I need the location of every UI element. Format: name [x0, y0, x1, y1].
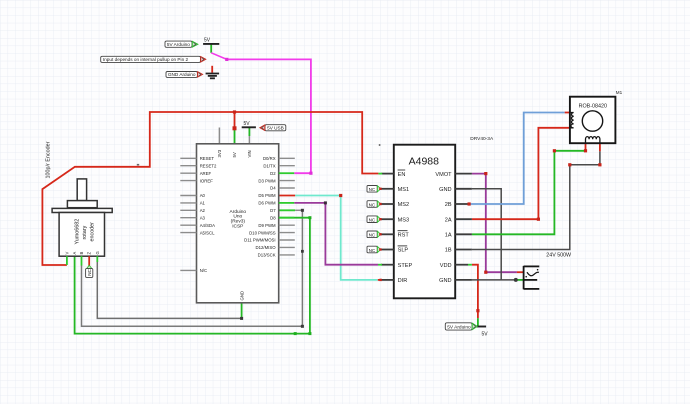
U1 pin stub D6 green	[279, 202, 295, 204]
power symbol 5V USB (above VIN)	[242, 121, 256, 127]
svg-text:NC: NC	[369, 187, 376, 192]
svg-text:A2: A2	[200, 208, 206, 213]
wire green net: A4988 1A to motor coil	[472, 151, 586, 235]
svg-text:5V Arduino: 5V Arduino	[447, 324, 471, 330]
svg-text:RST: RST	[398, 233, 410, 239]
wire purple net: Arduino D6 to A4988 STEP	[294, 203, 378, 265]
junction dot red above Arduino 5V pin	[233, 126, 237, 130]
junction dot red at NC MS3	[379, 218, 381, 220]
rotary encoder ENC1	[52, 179, 112, 256]
ENC1 pin stub G green	[96, 256, 98, 262]
wire dark net: A4988 1B to motor coil	[472, 151, 600, 249]
svg-text:RESET2: RESET2	[200, 163, 217, 168]
ENC1 shaft	[77, 179, 86, 201]
U2 overline SLP	[398, 245, 408, 247]
label flag Input depends on internal pullup on Pin 2	[101, 56, 206, 62]
svg-text:MS1: MS1	[398, 187, 410, 193]
pin stub D5 red	[279, 195, 295, 197]
svg-text:D10 PWM/SS: D10 PWM/SS	[249, 230, 276, 235]
NC tag RST	[367, 231, 381, 238]
svg-text:encoder: encoder	[89, 222, 95, 242]
junction dot dark on D7 drop wire	[301, 250, 304, 253]
tiny smudge label near red wire corner	[137, 164, 139, 166]
svg-text:NC: NC	[369, 248, 376, 253]
wire dark net: A4988 GND bottom to PSU	[472, 279, 516, 281]
svg-text:A4/SDA: A4/SDA	[200, 223, 215, 228]
svg-text:N/C: N/C	[200, 268, 207, 273]
NC tag MS2	[367, 201, 381, 208]
svg-text:100p/r Encoder: 100p/r Encoder	[46, 141, 52, 178]
svg-text:VIN: VIN	[247, 150, 252, 157]
ENC1 pin stub V green	[66, 256, 68, 265]
svg-text:NC: NC	[369, 202, 376, 207]
arduino U1 Arduino Uno	[197, 144, 279, 303]
power supply PS1 24V 500W	[524, 266, 540, 289]
wire dark net: A4988 GND right to GND bus	[472, 189, 501, 280]
svg-text:D6 PWM: D6 PWM	[258, 201, 276, 206]
junction dot magenta switch output	[225, 58, 228, 61]
switch S1 (magenta diagonal lever)	[211, 53, 227, 60]
svg-text:D11 PWM/MOSI: D11 PWM/MOSI	[244, 238, 275, 243]
label flag 5V USB	[260, 125, 286, 131]
wire green tick PSU middle terminal	[516, 279, 524, 281]
wire gray net: encoder B to Arduino D7	[82, 210, 303, 326]
svg-text:D8: D8	[270, 215, 276, 220]
pin stub 3V3	[218, 128, 220, 144]
svg-text:24V 500W: 24V 500W	[546, 252, 571, 258]
U2 green tick EN pin	[378, 173, 382, 175]
label flag GND Arduino	[166, 72, 203, 78]
M1 bottom coil winding	[586, 137, 600, 143]
svg-text:D5 PWM: D5 PWM	[258, 193, 276, 198]
svg-text:NC: NC	[369, 218, 376, 223]
junction dot red at 2B stub	[468, 202, 471, 205]
svg-text:DIR: DIR	[398, 278, 408, 284]
svg-text:5V: 5V	[232, 152, 237, 157]
svg-text:ICSP: ICSP	[232, 224, 243, 230]
junction dot red at 1A motor pin	[584, 149, 587, 152]
svg-text:D0/RX: D0/RX	[263, 156, 276, 161]
svg-text:5V: 5V	[204, 38, 211, 44]
motor pin leg red bottom-left coil	[585, 143, 587, 151]
svg-text:STEP: STEP	[398, 263, 413, 269]
ENC1 flange	[52, 208, 112, 212]
wire blue net: A4988 2B to motor coil	[469, 113, 565, 205]
svg-text:GND: GND	[439, 187, 451, 193]
U2 left pin labels with overlines EN RST SLP	[398, 172, 413, 284]
junction dot dark at Arduino GND stub	[240, 317, 243, 320]
junction dot red on VDD drop	[476, 309, 479, 312]
svg-text:D4: D4	[270, 186, 276, 191]
svg-text:1A: 1A	[445, 233, 452, 239]
svg-text:VDD: VDD	[440, 263, 452, 269]
svg-text:D3 PWM: D3 PWM	[258, 178, 276, 183]
svg-text:D1/TX: D1/TX	[263, 163, 275, 168]
pin stub VIN	[248, 136, 250, 144]
svg-text:rotary: rotary	[82, 225, 88, 239]
svg-text:SLP: SLP	[398, 248, 409, 254]
wire green segment D7 pin	[279, 209, 295, 211]
U2 left pin stubs	[380, 174, 394, 280]
label flag 5V Arduino (bottom)	[445, 323, 477, 331]
junction dot red at NC SLP	[379, 248, 381, 250]
svg-text:A4988: A4988	[409, 156, 440, 168]
svg-text:1B: 1B	[445, 248, 452, 254]
svg-text:5V: 5V	[243, 121, 250, 127]
svg-text:Z: Z	[87, 252, 92, 255]
svg-text:D7: D7	[270, 208, 276, 213]
svg-text:NC: NC	[87, 268, 92, 275]
svg-text:B: B	[79, 252, 84, 255]
svg-text:G: G	[95, 251, 100, 254]
junction dot magenta at D2 corner	[309, 172, 312, 175]
motor M1 ROB-08420	[570, 97, 616, 144]
junction dot dark at D7 drop corner	[301, 325, 304, 328]
U2 overline RST	[398, 230, 408, 232]
ENC1 body	[59, 213, 104, 257]
U1 left pin labels	[200, 156, 217, 273]
wire red tick PSU top terminal	[517, 271, 524, 273]
wire green tick VDD 5V symbol	[477, 318, 479, 326]
svg-text:5V USB: 5V USB	[267, 125, 284, 130]
svg-text:D12/MISO: D12/MISO	[256, 245, 277, 250]
svg-text:EN: EN	[398, 172, 406, 178]
wire red net 5V Arduino: encoder V - Arduino 5V - A4988 EN	[42, 112, 378, 265]
U1 pin stub D8 green	[279, 217, 295, 219]
wire red net: A4988 2A to motor coil	[472, 128, 570, 219]
U1 top pin labels 3V3 5V VIN	[217, 149, 252, 157]
svg-text:GND: GND	[239, 291, 244, 301]
ENC1 pin labels V A B Z G	[64, 251, 99, 254]
wire gray jumper D7 to junction	[295, 209, 302, 211]
junction dot red at D5 corner	[339, 194, 342, 197]
junction dot red on 5V rail	[233, 110, 236, 113]
svg-text:NC: NC	[369, 233, 376, 238]
ground symbol GND Arduino	[206, 74, 220, 79]
M1 left coil winding	[571, 113, 574, 128]
junction dot dark at D6 corner	[324, 201, 327, 204]
wire purple net: A4988 VMOT to PSU	[472, 174, 517, 273]
svg-text:5V: 5V	[482, 331, 489, 337]
junction dot red at NC MS2	[379, 203, 381, 205]
junction dot red at 1B corner	[568, 163, 571, 166]
junction dot round dark at PSU GND terminal	[514, 278, 518, 282]
svg-text:Yumo6682: Yumo6682	[74, 219, 80, 245]
U2 right pin stubs	[455, 174, 472, 280]
svg-text:3V3: 3V3	[217, 149, 222, 157]
svg-text:2B: 2B	[445, 202, 452, 208]
NC tag encoder Z pin	[86, 265, 93, 277]
junction dot red at 1A corner	[553, 149, 556, 152]
U1 right pin stubs D0-D13	[279, 158, 295, 255]
wire red branch to Arduino 5V pin	[234, 112, 236, 128]
wire red net: A4988 VDD to 5V symbol	[472, 265, 478, 319]
ENC1 collar	[67, 201, 97, 208]
junction dot red at NC MS1	[379, 188, 381, 190]
U1 pin stub D2 green	[279, 172, 295, 174]
wire dark net: encoder G to Arduino GND	[97, 262, 241, 319]
wire green net: encoder A to Arduino D8	[75, 218, 310, 334]
NC tag MS3	[367, 216, 381, 223]
wire green stub Arduino GND bottom pin	[241, 303, 243, 319]
svg-text:GND: GND	[439, 278, 451, 284]
svg-text:GND Arduino: GND Arduino	[168, 72, 196, 77]
svg-text:ROB-08420: ROB-08420	[579, 104, 607, 110]
svg-text:D9 PWM: D9 PWM	[258, 223, 276, 228]
wire red stub above ground	[211, 66, 213, 73]
svg-text:DRV40-3A: DRV40-3A	[470, 136, 494, 142]
svg-text:MS2: MS2	[398, 202, 410, 208]
svg-text:A3: A3	[200, 215, 206, 220]
svg-text:2A: 2A	[445, 217, 452, 223]
power symbol 5V (bottom, VDD)	[475, 327, 488, 338]
junction dot green on A net bus	[294, 332, 297, 335]
U2 right pin labels	[435, 172, 452, 284]
svg-text:RESET: RESET	[200, 156, 215, 161]
U2 green tick STEP pin	[378, 264, 382, 266]
svg-text:MS3: MS3	[398, 217, 410, 223]
junction dot red at DIR stub	[379, 279, 381, 281]
junction dot red at 2A corner	[537, 218, 540, 221]
label flag 5V Arduino (top)	[165, 41, 198, 47]
red tick at DIR pin	[378, 279, 382, 281]
tiny mark near U2 top-left	[379, 144, 381, 146]
svg-text:A1: A1	[200, 201, 206, 206]
power symbol 5V (top, switch feed)	[203, 38, 219, 44]
motor pin leg red top-left	[565, 112, 570, 114]
junction dot green at D8 corner	[308, 216, 311, 219]
junction dot dark at D7 junction	[301, 209, 304, 212]
junction dot red at 1B motor pin	[598, 163, 601, 166]
svg-text:M1: M1	[616, 90, 623, 95]
svg-text:D2: D2	[270, 171, 276, 176]
svg-text:IOREF: IOREF	[200, 178, 214, 183]
svg-text:D13/SCK: D13/SCK	[258, 253, 276, 258]
svg-text:VMOT: VMOT	[435, 172, 452, 178]
svg-text:AREF: AREF	[200, 171, 212, 176]
svg-text:A: A	[72, 252, 77, 255]
wire green tick VIN pin to 5V USB bar	[248, 128, 250, 136]
svg-text:A0: A0	[200, 193, 206, 198]
ENC1 pin stub Z red	[88, 256, 90, 268]
junction dot red at VMOT corner	[484, 172, 487, 175]
svg-text:5V Arduino: 5V Arduino	[167, 42, 190, 47]
wire net 5V to switch (green stub from 5V symbol)	[210, 44, 212, 53]
ENC1 pin stub B green	[81, 256, 83, 265]
motor pin leg red bottom-right coil	[599, 143, 601, 151]
U2 green tick VDD pin	[468, 264, 472, 266]
svg-text:A5/SCL: A5/SCL	[200, 230, 215, 235]
junction dot red at NC RST	[379, 233, 381, 235]
svg-text:V: V	[64, 252, 69, 255]
U2 overline EN	[398, 169, 406, 171]
junction dot green at A net corner	[308, 332, 311, 335]
U1 right pin labels	[244, 156, 276, 258]
NC tag MS1	[367, 186, 381, 193]
PS1 contact dots	[537, 269, 539, 271]
junction dot red at VMOT PSU corner	[484, 271, 487, 274]
U1 left pin stubs RESET RESET2 AREF IOREF A0 A1 A2 A3 A4 A5 N/C	[180, 158, 196, 270]
wire magenta net: switch to Arduino D2	[227, 59, 311, 173]
driver U2 A4988	[394, 145, 455, 299]
svg-text:Input depends on internal pull: Input depends on internal pullup on Pin …	[103, 57, 189, 62]
NC tag SLP	[367, 246, 381, 253]
wire mint net: Arduino D5 to A4988 DIR	[295, 196, 378, 280]
wire green stub Arduino 5V pin	[234, 128, 236, 144]
